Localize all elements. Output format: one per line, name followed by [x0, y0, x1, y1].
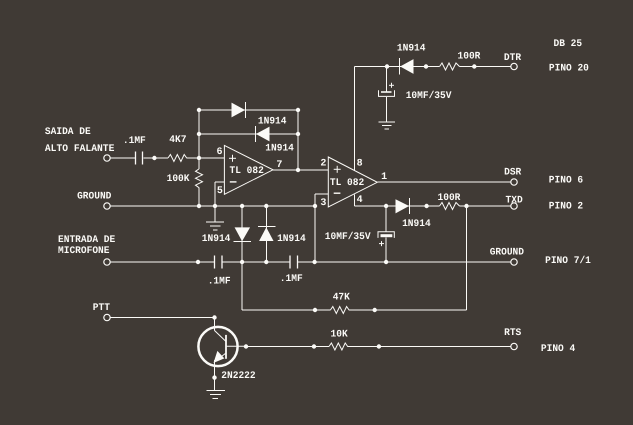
svg-text:5: 5	[217, 186, 223, 197]
wire feedback row 2	[199, 133, 298, 135]
svg-text:47K: 47K	[333, 293, 350, 304]
svg-text:1N914: 1N914	[258, 116, 287, 127]
op-amp U1A TL 082	[217, 145, 283, 196]
svg-text:TL 082: TL 082	[330, 178, 364, 189]
svg-text:DSR: DSR	[504, 168, 521, 179]
svg-text:1N914: 1N914	[265, 144, 294, 155]
ground (under transistor)	[207, 391, 225, 399]
node dots saida row	[152, 156, 201, 160]
svg-text:1N914: 1N914	[202, 234, 231, 245]
diode D5 1N914 (vertical, pointing down)	[202, 206, 251, 262]
svg-text:1N914: 1N914	[402, 219, 431, 230]
capacitor C5 10MF/35V (top electrolytic)	[379, 67, 452, 122]
svg-text:1: 1	[381, 172, 387, 183]
svg-text:100R: 100R	[458, 51, 481, 62]
svg-text:3: 3	[320, 198, 326, 209]
svg-text:10MF/35V: 10MF/35V	[325, 231, 371, 243]
svg-text:.1MF: .1MF	[123, 136, 146, 147]
wire PTT row	[111, 317, 215, 319]
wire pin8 vertical to DTR row	[353, 67, 355, 171]
svg-text:PINO 7/1: PINO 7/1	[545, 255, 591, 267]
wire op1 output to op2 input	[273, 169, 328, 171]
wire pin4 vertical	[353, 194, 355, 206]
svg-text:TXD: TXD	[506, 195, 523, 206]
wire feedback right vertical	[297, 110, 299, 170]
diode D6 1N914 (vertical, pointing up)	[258, 206, 306, 262]
svg-text:GROUND: GROUND	[77, 192, 111, 203]
svg-text:PINO 6: PINO 6	[549, 176, 583, 187]
resistor 100R (DTR row)	[440, 51, 481, 70]
node dots feedback	[197, 108, 300, 136]
svg-text:SAIDA DE: SAIDA DE	[45, 127, 91, 138]
terminal ground right	[511, 259, 517, 265]
terminal DSR	[504, 168, 521, 186]
svg-text:.1MF: .1MF	[208, 277, 231, 288]
resistor R2 100K	[167, 158, 203, 206]
node dot collector	[244, 344, 248, 348]
wire feedback left vertical	[198, 110, 200, 158]
svg-text:MICROFONE: MICROFONE	[58, 246, 110, 257]
capacitor C3 .1MF	[280, 256, 303, 286]
node dot op1 output	[296, 168, 300, 172]
terminal RTS	[504, 328, 521, 349]
svg-text:100K: 100K	[167, 174, 190, 185]
svg-text:7: 7	[276, 160, 282, 171]
wire feedback row 1	[199, 109, 298, 111]
resistor R3 100R (TXD row)	[438, 193, 461, 209]
node dots ground rail	[197, 204, 469, 208]
node junction dots DTR row	[385, 64, 477, 68]
svg-text:PINO 20: PINO 20	[549, 64, 589, 75]
diode D4 1N914 (TXD row, pointing right)	[396, 198, 431, 230]
wire ground rail	[111, 205, 511, 207]
node dots RTS row	[312, 344, 381, 348]
wire RTS row	[246, 346, 511, 348]
resistor R4 47K	[330, 293, 351, 314]
terminal microfone	[104, 259, 110, 265]
diode D1 1N914 (DTR row, pointing left)	[397, 44, 426, 75]
terminal ground left	[104, 203, 110, 209]
svg-text:GROUND: GROUND	[490, 248, 524, 259]
svg-text:8: 8	[357, 158, 363, 169]
transistor Q1 2N2222	[198, 318, 255, 391]
svg-text:6: 6	[217, 147, 223, 158]
svg-text:100R: 100R	[438, 193, 461, 204]
svg-text:RTS: RTS	[504, 328, 521, 339]
svg-text:2N2222: 2N2222	[221, 371, 255, 382]
diode D3 1N914 (feedback, pointing left)	[256, 126, 294, 155]
svg-text:4K7: 4K7	[169, 135, 186, 146]
svg-text:1N914: 1N914	[277, 234, 306, 245]
wire microfone row	[111, 261, 511, 263]
node dot PTT corner	[212, 315, 216, 319]
node dot emitter	[212, 375, 216, 379]
ground (under C5)	[379, 122, 396, 129]
svg-text:2: 2	[320, 158, 326, 169]
svg-text:ALTO FALANTE: ALTO FALANTE	[45, 144, 115, 155]
ground (under pin5)	[206, 222, 224, 230]
wire DTR row	[354, 66, 511, 68]
svg-text:PTT: PTT	[93, 303, 110, 314]
svg-text:10K: 10K	[331, 329, 348, 340]
svg-text:10MF/35V: 10MF/35V	[406, 90, 452, 102]
wire saida row	[111, 157, 225, 159]
terminal saida	[104, 155, 110, 161]
terminal PTT	[104, 314, 110, 320]
resistor R5 10K	[329, 329, 352, 350]
node dots microfone row	[196, 260, 388, 264]
capacitor C6 10MF/35V (bottom electrolytic)	[325, 206, 395, 262]
svg-text:PINO 2: PINO 2	[549, 202, 583, 213]
svg-text:TL 082: TL 082	[230, 166, 264, 177]
svg-text:.1MF: .1MF	[280, 274, 303, 285]
capacitor C1 .1MF	[123, 136, 146, 164]
wire pin3 stub	[315, 194, 328, 262]
node dots 47K row	[313, 308, 377, 312]
wire 47K row	[242, 206, 466, 310]
terminal TXD	[506, 195, 523, 209]
wire pin5 stub	[215, 182, 224, 222]
wire DSR row	[377, 181, 511, 183]
svg-text:PINO 4: PINO 4	[541, 344, 575, 355]
resistor R1 4K7	[168, 135, 187, 161]
op-amp U1B TL 082	[320, 157, 387, 209]
svg-text:DTR: DTR	[504, 53, 521, 64]
svg-text:4: 4	[357, 195, 363, 206]
svg-text:DB 25: DB 25	[554, 39, 583, 50]
diode D2 1N914 (feedback, pointing right)	[232, 102, 287, 127]
svg-text:1N914: 1N914	[397, 44, 426, 55]
svg-text:ENTRADA DE: ENTRADA DE	[58, 235, 115, 246]
capacitor C2 .1MF	[208, 256, 231, 288]
terminal DTR	[504, 53, 521, 70]
